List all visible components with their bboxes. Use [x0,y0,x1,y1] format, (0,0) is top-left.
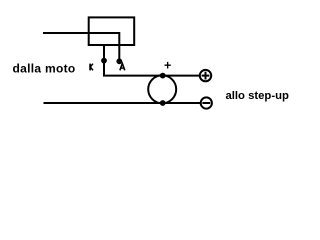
svg-text:allo step-up: allo step-up [226,90,289,102]
svg-text:dalla moto: dalla moto [13,62,76,76]
svg-text:+: + [164,58,171,72]
